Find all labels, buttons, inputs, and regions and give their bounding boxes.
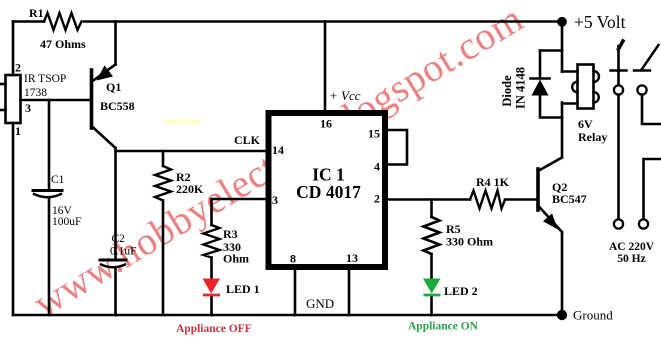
- svg-text:AC 220V: AC 220V: [609, 241, 655, 253]
- svg-text:+ Vcc: + Vcc: [329, 88, 361, 103]
- svg-text:16: 16: [320, 117, 332, 131]
- svg-text:50 Hz: 50 Hz: [617, 253, 645, 265]
- svg-text:Ohm: Ohm: [223, 252, 249, 266]
- svg-text:LED 2: LED 2: [444, 284, 478, 298]
- svg-text:Q1: Q1: [106, 80, 121, 94]
- svg-text:Diode: Diode: [500, 75, 514, 107]
- svg-text:Relay: Relay: [578, 130, 607, 144]
- svg-text:6V: 6V: [578, 117, 593, 131]
- svg-text:BC547: BC547: [552, 192, 587, 206]
- svg-text:GND: GND: [306, 296, 334, 311]
- svg-text:13: 13: [346, 251, 358, 265]
- svg-text:100uF: 100uF: [52, 216, 81, 228]
- svg-text:47 Ohms: 47 Ohms: [40, 37, 86, 51]
- svg-text:C1: C1: [51, 174, 65, 186]
- svg-text:LED 1: LED 1: [226, 282, 260, 296]
- svg-text:2: 2: [374, 192, 380, 206]
- svg-text:8: 8: [290, 252, 296, 266]
- svg-text:R3: R3: [223, 227, 238, 241]
- svg-text:1738: 1738: [24, 87, 47, 99]
- svg-text:220K: 220K: [176, 182, 204, 196]
- svg-text:14: 14: [272, 143, 284, 157]
- svg-text:3: 3: [25, 101, 31, 115]
- svg-text:R1: R1: [29, 6, 44, 20]
- svg-text:+5 Volt: +5 Volt: [574, 12, 626, 32]
- svg-text:CD 4017: CD 4017: [296, 182, 361, 202]
- svg-text:BC558: BC558: [100, 99, 135, 113]
- svg-text:Appliance ON: Appliance ON: [408, 321, 479, 333]
- svg-text:Appliance OFF: Appliance OFF: [176, 323, 252, 335]
- svg-text:IR TSOP: IR TSOP: [24, 73, 66, 85]
- svg-text:R4 1K: R4 1K: [476, 175, 510, 189]
- svg-text:Ground: Ground: [573, 308, 613, 323]
- svg-text:IN 4148: IN 4148: [514, 67, 528, 109]
- svg-text:15: 15: [368, 127, 380, 141]
- svg-text:CLK: CLK: [234, 133, 261, 147]
- svg-text:1: 1: [15, 124, 21, 138]
- svg-text:4: 4: [374, 160, 380, 174]
- svg-text:C2: C2: [112, 233, 126, 245]
- svg-text:2: 2: [15, 61, 21, 75]
- svg-text:3: 3: [272, 193, 278, 207]
- svg-text:330 Ohm: 330 Ohm: [446, 235, 493, 249]
- svg-text:0.1uF: 0.1uF: [110, 246, 137, 258]
